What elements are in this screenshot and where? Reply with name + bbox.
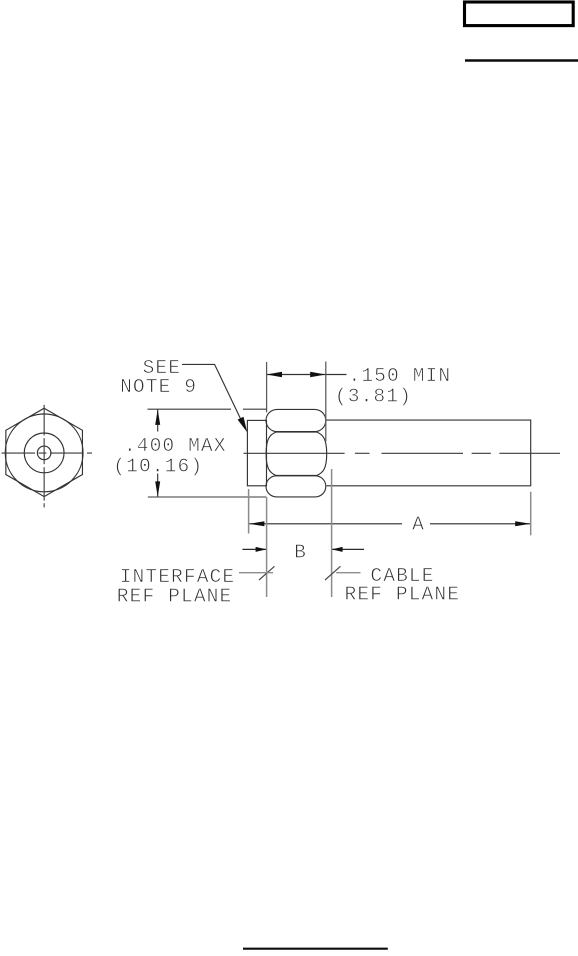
- .400 MAX top extension line: [148, 408, 232, 410]
- svg-text:.400 MAX: .400 MAX: [124, 435, 227, 457]
- end view small circle: [37, 446, 51, 460]
- leader arrowhead: [238, 417, 248, 433]
- A left extension line: [248, 489, 250, 534]
- .150 MIN extension line right: [325, 362, 327, 442]
- .150 MIN dimension line with arrows: [267, 374, 347, 376]
- cable label connector: [336, 572, 360, 574]
- svg-text:NOTE 9: NOTE 9: [120, 376, 197, 398]
- hex nut bottom facet (stadium): [266, 476, 326, 497]
- top right rule: [465, 59, 578, 61]
- hex nut middle facet: [266, 432, 327, 476]
- svg-text:(10.16): (10.16): [113, 456, 203, 478]
- side view centerline: [244, 452, 561, 454]
- interface plane tick: [259, 566, 275, 580]
- leader line from SEE to interface rect: [182, 364, 245, 427]
- end view horizontal centerline: [2, 452, 93, 454]
- cable ref plane vertical line: [331, 469, 333, 597]
- side view: interface small rectangle: [247, 420, 266, 485]
- hex nut top facet (stadium): [266, 409, 326, 431]
- interface ref plane vertical line: [266, 497, 268, 597]
- .400 MAX bottom extension line: [148, 496, 266, 498]
- svg-text:REF PLANE: REF PLANE: [345, 584, 461, 606]
- A right extension line: [530, 492, 532, 536]
- svg-text:B: B: [294, 541, 307, 563]
- svg-text:A: A: [412, 513, 425, 535]
- end view middle circle: [24, 433, 64, 473]
- side view: body rectangle: [326, 420, 531, 486]
- footer rule: [243, 948, 388, 950]
- cable plane tick: [325, 566, 341, 580]
- end view vertical centerline: [43, 405, 45, 508]
- svg-text:(3.81): (3.81): [335, 386, 412, 408]
- interface label connector: [239, 572, 273, 574]
- svg-text:REF PLANE: REF PLANE: [117, 586, 233, 608]
- svg-text:.150 MIN: .150 MIN: [349, 365, 452, 387]
- top right page-number box: [465, 2, 574, 26]
- end view hexagon: [5, 408, 83, 496]
- B dimension left arrow: [242, 548, 266, 550]
- A dimension line: [249, 523, 402, 525]
- end view outer circle: [5, 414, 83, 492]
- .400 MAX dimension line vertical, arrows: [157, 410, 159, 432]
- B dimension right arrow: [332, 548, 364, 550]
- .150 MIN extension line left (interface plane upper): [266, 362, 268, 412]
